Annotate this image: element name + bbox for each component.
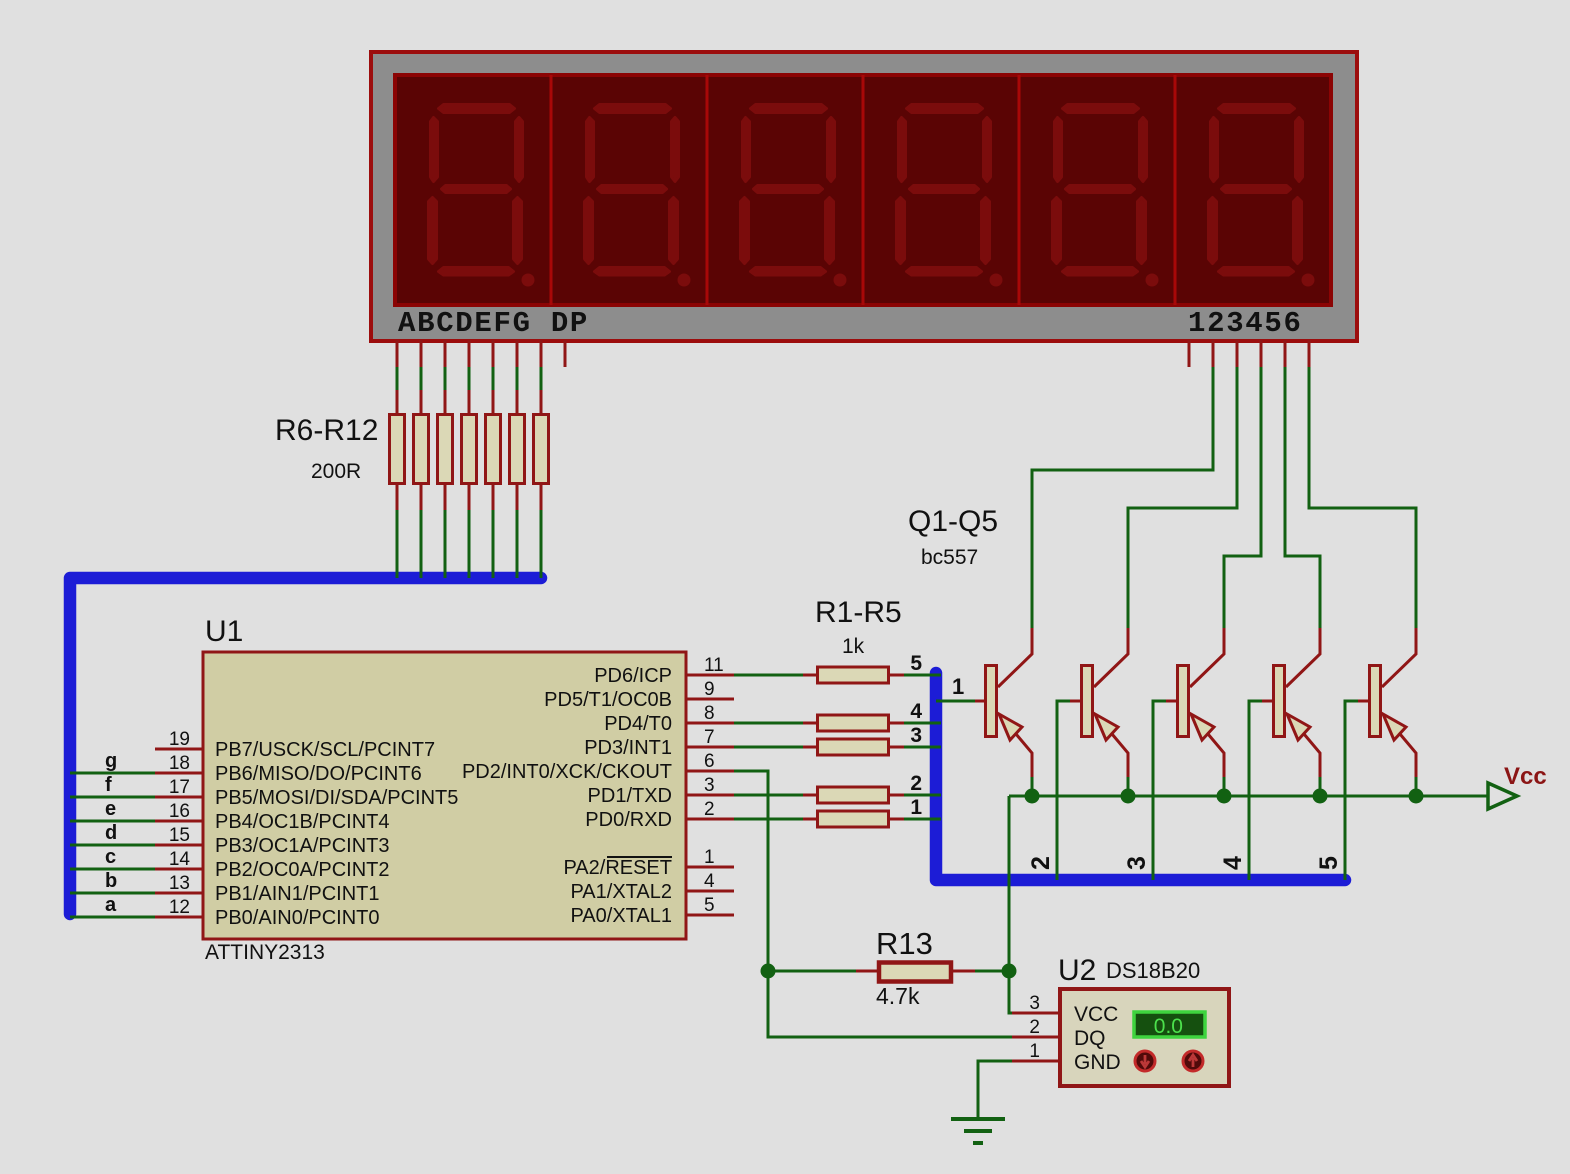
- svg-text:17: 17: [169, 777, 190, 798]
- junction node A (pin6/R13/DQ): [761, 964, 776, 979]
- svg-text:3: 3: [704, 775, 715, 796]
- display pin D wire: [468, 340, 471, 414]
- svg-text:PA0/XTAL1: PA0/XTAL1: [570, 905, 672, 927]
- svg-text:3: 3: [1123, 856, 1151, 870]
- wire node A to U2 DQ pin: [768, 971, 1012, 1037]
- svg-text:0.0: 0.0: [1154, 1015, 1183, 1038]
- display pin F wire: [516, 340, 519, 414]
- svg-text:GND: GND: [1074, 1051, 1121, 1074]
- Vcc power terminal: [1488, 763, 1547, 809]
- svg-text:3: 3: [910, 724, 922, 747]
- transistor Q2 (bc557): [1070, 628, 1128, 777]
- display digit 1: [429, 105, 535, 287]
- svg-text:PD6/ICP: PD6/ICP: [594, 665, 672, 687]
- svg-text:PA1/XTAL2: PA1/XTAL2: [570, 881, 672, 903]
- svg-text:2: 2: [704, 799, 715, 820]
- svg-text:3: 3: [1029, 993, 1040, 1014]
- wire Q3 emitter to Vcc rail: [1223, 777, 1226, 796]
- display pin 3 wire to Q2 collector: [1128, 340, 1237, 629]
- svg-text:PD0/RXD: PD0/RXD: [585, 809, 672, 831]
- wire bus to U1 pin 14, net c: [70, 846, 155, 869]
- U1 pin 13 (PB1/AIN1/PCINT1): [155, 873, 380, 905]
- svg-text:9: 9: [704, 679, 715, 700]
- IC U2 DS18B20 body: [1060, 989, 1229, 1086]
- wire Q2 emitter to Vcc rail: [1127, 777, 1130, 796]
- svg-text:4: 4: [910, 700, 922, 723]
- svg-text:200R: 200R: [311, 460, 361, 483]
- U1 pin 11 (PD6/ICP): [594, 655, 734, 687]
- 7-segment display DS1 frame: [371, 52, 1357, 341]
- display pin A wire: [396, 340, 399, 414]
- transistor Q3 (bc557): [1166, 628, 1224, 777]
- display digit 2: [585, 105, 691, 287]
- wire R10 to bus: [492, 485, 495, 578]
- svg-text:bc557: bc557: [921, 546, 978, 569]
- display digit 6: [1209, 105, 1315, 287]
- wire bus to Q3 base, net 3: [1123, 701, 1166, 880]
- svg-text:U2: U2: [1058, 954, 1096, 987]
- U1 pin 12 (PB0/AIN0/PCINT0): [155, 897, 380, 929]
- svg-text:1: 1: [704, 847, 715, 868]
- display pin C wire: [444, 340, 447, 414]
- svg-text:PD3/INT1: PD3/INT1: [584, 737, 672, 759]
- svg-text:4.7k: 4.7k: [876, 983, 920, 1009]
- wire R12 to bus: [540, 485, 543, 578]
- wire Q4 emitter to Vcc rail: [1319, 777, 1322, 796]
- svg-text:b: b: [105, 870, 117, 892]
- Vcc rail wire: [1009, 795, 1488, 798]
- U2 pin 3 (VCC): [1012, 993, 1118, 1026]
- U1 pin 17 (PB5/MOSI/DI/SDA/PCINT5): [155, 777, 458, 809]
- junction Q5 emitter / Vcc rail: [1409, 789, 1424, 804]
- U1 pin 1 (PA2/RESET): [563, 847, 734, 879]
- wire U2 GND pin to ground: [978, 1061, 1012, 1117]
- wire U1 to R4: [734, 794, 816, 797]
- svg-text:1: 1: [952, 674, 964, 699]
- svg-text:ATTINY2313: ATTINY2313: [205, 941, 325, 964]
- display pin E wire: [492, 340, 495, 414]
- wire Q1 emitter to Vcc rail: [1031, 777, 1034, 796]
- bus segment wire (right blue bus): [936, 673, 1345, 880]
- display pin 6 wire to Q5 collector: [1309, 340, 1416, 629]
- display digit 5: [1053, 105, 1159, 287]
- U1 pin 7 (PD3/INT1): [584, 727, 734, 759]
- U1 pin 2 (PD0/RXD): [585, 799, 734, 831]
- svg-text:PA2/RESET: PA2/RESET: [563, 857, 672, 879]
- IC U1 ATTINY2313 body: [203, 652, 686, 939]
- svg-text:PB2/OC0A/PCINT2: PB2/OC0A/PCINT2: [215, 859, 390, 881]
- svg-text:11: 11: [704, 655, 724, 676]
- svg-text:2: 2: [910, 772, 922, 795]
- svg-text:VCC: VCC: [1074, 1003, 1118, 1026]
- U2 down button: [1135, 1051, 1155, 1071]
- resistor R11 (200R): [510, 415, 525, 484]
- wire Q5 emitter to Vcc rail: [1415, 777, 1418, 796]
- svg-text:U1: U1: [205, 615, 243, 648]
- svg-text:PB3/OC1A/PCINT3: PB3/OC1A/PCINT3: [215, 835, 390, 857]
- wire R3 to bus, net 3: [890, 724, 941, 747]
- resistor R9 (200R): [462, 415, 477, 484]
- resistor R2 (1k): [818, 715, 889, 731]
- svg-text:1: 1: [910, 796, 922, 819]
- resistor R8 (200R): [438, 415, 453, 484]
- resistor R7 (200R): [414, 415, 429, 484]
- svg-text:2: 2: [1029, 1017, 1040, 1038]
- junction Q2 emitter / Vcc rail: [1121, 789, 1136, 804]
- svg-text:PD4/T0: PD4/T0: [604, 713, 672, 735]
- display pin 4 wire to Q3 collector: [1224, 340, 1261, 629]
- resistor R5 (1k): [818, 811, 889, 827]
- svg-text:PB1/AIN1/PCINT1: PB1/AIN1/PCINT1: [215, 883, 380, 905]
- bus segment wire (left blue bus): [70, 578, 541, 914]
- svg-text:PD1/TXD: PD1/TXD: [588, 785, 672, 807]
- junction Q1 emitter / Vcc rail: [1025, 789, 1040, 804]
- svg-text:d: d: [105, 822, 117, 844]
- U1 pin 9 (PD5/T1/OC0B): [544, 679, 734, 711]
- display pin 5 wire to Q4 collector: [1285, 340, 1320, 629]
- wire bus to Q5 base, net 5: [1315, 701, 1358, 880]
- resistor R10 (200R): [486, 415, 501, 484]
- junction Q3 emitter / Vcc rail: [1217, 789, 1232, 804]
- svg-text:18: 18: [169, 753, 190, 774]
- svg-text:1k: 1k: [842, 635, 865, 658]
- svg-text:16: 16: [169, 801, 190, 822]
- display digit 3: [741, 105, 847, 287]
- resistor R13 (4.7k): [879, 963, 951, 982]
- wire bus to Q4 base, net 4: [1219, 701, 1262, 880]
- display digit cell dividers: [551, 75, 1175, 305]
- wire bus to U1 pin 12, net a: [70, 894, 155, 917]
- U1 pin 18 (PB6/MISO/DO/PCINT6): [155, 753, 422, 785]
- U1 pin 8 (PD4/T0): [604, 703, 734, 735]
- resistor R12 (200R): [534, 415, 549, 484]
- svg-text:PB0/AIN0/PCINT0: PB0/AIN0/PCINT0: [215, 907, 380, 929]
- U1 pin 19 (PB7/USCK/SCL/PCINT7): [155, 729, 435, 761]
- display pin G wire: [540, 340, 543, 414]
- svg-text:a: a: [105, 894, 117, 916]
- junction node B (Vcc/R13/U2 VCC): [1002, 964, 1017, 979]
- wire bus to Q1 base, net 1: [936, 674, 975, 701]
- svg-text:ABCDEFG DP: ABCDEFG DP: [398, 307, 589, 340]
- wire node A to R13: [768, 970, 877, 973]
- svg-text:13: 13: [169, 873, 190, 894]
- wire R8 to bus: [444, 485, 447, 578]
- wire bus to U1 pin 17, net f: [70, 774, 155, 797]
- U1 pin 4 (PA1/XTAL2): [570, 871, 734, 903]
- resistor R4 (1k): [818, 787, 889, 803]
- svg-text:12: 12: [169, 897, 190, 918]
- svg-text:1: 1: [1029, 1041, 1040, 1062]
- wire U1 pin 6 to R13 node: [734, 771, 768, 971]
- svg-text:19: 19: [169, 729, 190, 750]
- svg-text:c: c: [105, 846, 116, 868]
- U1 pin 3 (PD1/TXD): [588, 775, 734, 807]
- display pin B wire: [420, 340, 423, 414]
- resistor R6 (200R): [390, 415, 405, 484]
- svg-text:R6-R12: R6-R12: [275, 414, 378, 447]
- svg-text:Q1-Q5: Q1-Q5: [908, 505, 998, 538]
- wire bus to Q2 base, net 2: [1027, 701, 1070, 880]
- wire R7 to bus: [420, 485, 423, 578]
- wire R11 to bus: [516, 485, 519, 578]
- transistor Q5 (bc557): [1358, 628, 1416, 777]
- wire Vcc rail to R13 right node: [1008, 796, 1011, 971]
- wire node B to U2 VCC pin: [1009, 971, 1014, 1013]
- svg-text:4: 4: [1219, 856, 1247, 870]
- wire R6 to bus: [396, 485, 399, 578]
- transistor Q4 (bc557): [1262, 628, 1320, 777]
- svg-text:e: e: [105, 798, 116, 820]
- transistor Q1 (bc557): [974, 628, 1032, 777]
- svg-text:8: 8: [704, 703, 715, 724]
- wire R5 to bus, net 1: [890, 796, 941, 819]
- svg-text:4: 4: [704, 871, 715, 892]
- svg-text:R1-R5: R1-R5: [815, 596, 902, 629]
- svg-text:PB4/OC1B/PCINT4: PB4/OC1B/PCINT4: [215, 811, 390, 833]
- svg-text:14: 14: [169, 849, 191, 870]
- wire R9 to bus: [468, 485, 471, 578]
- U2 temperature readout: [1134, 1012, 1205, 1038]
- wire U1 to R1: [734, 674, 816, 677]
- svg-text:PB7/USCK/SCL/PCINT7: PB7/USCK/SCL/PCINT7: [215, 739, 435, 761]
- svg-text:PB5/MOSI/DI/SDA/PCINT5: PB5/MOSI/DI/SDA/PCINT5: [215, 787, 458, 809]
- svg-text:2: 2: [1027, 856, 1055, 870]
- svg-text:5: 5: [910, 652, 922, 675]
- svg-text:6: 6: [704, 751, 715, 772]
- wire R2 to bus, net 4: [890, 700, 941, 723]
- svg-text:15: 15: [169, 825, 190, 846]
- ground symbol: [951, 1119, 1005, 1143]
- svg-text:DQ: DQ: [1074, 1027, 1106, 1050]
- wire U1 to R2: [734, 722, 816, 725]
- display pin 1 stub: [1188, 340, 1191, 367]
- svg-text:g: g: [105, 750, 117, 772]
- junction Q4 emitter / Vcc rail: [1313, 789, 1328, 804]
- svg-text:R13: R13: [876, 926, 933, 961]
- wire R4 to bus, net 2: [890, 772, 941, 795]
- U1 pin 6 (PD2/INT0/XCK/CKOUT): [462, 751, 734, 783]
- wire U1 to R5: [734, 818, 816, 821]
- wire bus to U1 pin 16, net e: [70, 798, 155, 821]
- U1 pin 15 (PB3/OC1A/PCINT3): [155, 825, 390, 857]
- svg-text:PD2/INT0/XCK/CKOUT: PD2/INT0/XCK/CKOUT: [462, 761, 672, 783]
- display pin DP stub: [564, 340, 567, 367]
- wire R13 to node B: [951, 970, 1009, 973]
- U2 pin 2 (DQ): [1012, 1017, 1106, 1050]
- resistor R3 (1k): [818, 739, 889, 755]
- svg-text:5: 5: [1315, 856, 1343, 870]
- U2 up button: [1183, 1051, 1203, 1071]
- wire bus to U1 pin 18, net g: [70, 750, 155, 773]
- svg-text:f: f: [105, 774, 112, 796]
- svg-text:DS18B20: DS18B20: [1106, 958, 1200, 983]
- svg-text:PB6/MISO/DO/PCINT6: PB6/MISO/DO/PCINT6: [215, 763, 422, 785]
- svg-text:7: 7: [704, 727, 715, 748]
- resistor R1 (1k): [818, 667, 889, 683]
- wire bus to U1 pin 13, net b: [70, 870, 155, 893]
- svg-text:5: 5: [704, 895, 715, 916]
- svg-text:PD5/T1/OC0B: PD5/T1/OC0B: [544, 689, 672, 711]
- wire R1 to bus, net 5: [890, 652, 941, 675]
- display pin 2 wire to Q1 collector: [1032, 340, 1213, 629]
- U1 pin 16 (PB4/OC1B/PCINT4): [155, 801, 390, 833]
- display digit 4: [897, 105, 1003, 287]
- svg-text:123456: 123456: [1188, 307, 1303, 340]
- wire U1 to R3: [734, 746, 816, 749]
- U1 pin 5 (PA0/XTAL1): [570, 895, 734, 927]
- U1 pin 14 (PB2/OC0A/PCINT2): [155, 849, 390, 881]
- svg-text:Vcc: Vcc: [1504, 763, 1547, 790]
- wire bus to U1 pin 15, net d: [70, 822, 155, 845]
- U2 pin 1 (GND): [1012, 1041, 1121, 1074]
